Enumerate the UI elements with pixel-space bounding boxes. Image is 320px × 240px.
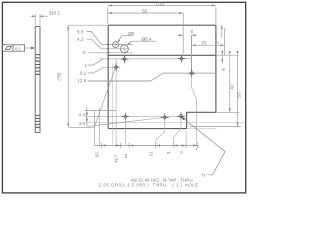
- bottom ordinate dimension line: [94, 111, 198, 148]
- note leader to H6: [87, 118, 164, 127]
- dim 6 vertical (right): [221, 55, 223, 63]
- svg-text:(76): (76): [57, 72, 62, 81]
- top dim (76): [108, 6, 216, 25]
- leader end dots: [107, 44, 109, 60]
- svg-text:0: 0: [179, 151, 184, 154]
- top hole row centerline: [100, 58, 192, 60]
- tap hole H5: [121, 113, 129, 121]
- side view lower tapped-hole tick band: [36, 115, 40, 127]
- left ordinate leaders: [87, 32, 151, 81]
- svg-text:6.5: 6.5: [77, 29, 84, 34]
- bottom dim arrows: [102, 144, 198, 146]
- svg-text:0: 0: [83, 50, 86, 55]
- svg-text:12.6: 12.6: [77, 78, 86, 83]
- circle Ø6.4: [120, 45, 128, 53]
- hole2 vertical extension to bottom dims: [115, 59, 117, 146]
- dims 4.4 / 4.6 (lower left): [85, 108, 116, 127]
- top dim 55: [108, 13, 183, 54]
- tap hole H6: [161, 113, 169, 121]
- svg-text:3: 3: [166, 151, 171, 154]
- svg-text:2: 2: [215, 41, 220, 44]
- side view upper tapped-hole tick band: [36, 55, 40, 75]
- bottom hole row centerline: [85, 116, 183, 118]
- light line y122.6: [85, 122, 245, 124]
- svg-text:9.1: 9.1: [80, 71, 87, 76]
- svg-text:6: 6: [221, 68, 226, 71]
- tiny mark under right tick: [196, 148, 198, 151]
- tap hole H4: [188, 69, 196, 77]
- svg-text:1: 1: [85, 63, 88, 68]
- svg-text:2.05 DRILL ( 2.050 ) THRU -(: 2.05 DRILL ( 2.050 ) THRU -( 1 ) HOLE: [99, 182, 199, 187]
- svg-text:49.7: 49.7: [114, 154, 119, 163]
- svg-text:3±0.1: 3±0.1: [49, 11, 61, 16]
- border frame: [2, 2, 245, 193]
- dimension 3±0.1: [30, 14, 48, 25]
- svg-text:55: 55: [142, 9, 148, 14]
- svg-text:50: 50: [95, 152, 100, 157]
- 7x leader from H7: [182, 117, 225, 175]
- leader Ø6.4: [128, 41, 156, 45]
- tap hole H1: [121, 55, 129, 63]
- circle Ø5: [113, 42, 119, 48]
- svg-text:0.1: 0.1: [15, 46, 21, 51]
- internal stepped feature line (12.6 level): [88, 73, 216, 81]
- dim 53 (right): [190, 55, 241, 126]
- side view plate outline: [35, 27, 40, 133]
- fcf leader to side view: [25, 47, 34, 49]
- tap hole H7: [177, 112, 185, 120]
- bottom extension drops: [125, 117, 186, 145]
- svg-text:7x: 7x: [201, 173, 207, 178]
- svg-text:6: 6: [191, 29, 194, 34]
- tap hole H2: [112, 63, 120, 71]
- flatness feature control frame: [2, 45, 24, 51]
- svg-text:Ø6.4: Ø6.4: [142, 37, 152, 42]
- svg-text:4.4: 4.4: [79, 112, 86, 117]
- svg-text:25: 25: [202, 40, 208, 45]
- leader Ø5: [118, 36, 133, 43]
- dim 41 (right): [216, 55, 239, 112]
- internal full-width step edge: [108, 54, 216, 56]
- svg-text:53: 53: [236, 92, 241, 98]
- svg-text:44: 44: [124, 153, 129, 158]
- note leader to H2: [95, 69, 116, 146]
- right hole vertical centerline: [192, 35, 197, 145]
- svg-text:4.2: 4.2: [77, 37, 84, 42]
- vertical overall dim (76) baseline: [68, 25, 108, 127]
- dim 6 horizontal (top right): [178, 35, 197, 72]
- tap hole H3: [178, 55, 186, 63]
- svg-text:10: 10: [149, 151, 154, 156]
- light vertical extension x112.6: [112, 63, 114, 146]
- svg-text:4.6: 4.6: [79, 121, 86, 126]
- dim 25 (top right): [191, 28, 225, 55]
- main view outline: [108, 25, 216, 128]
- bottom edge light extension to right: [187, 128, 217, 130]
- svg-text:41: 41: [230, 84, 235, 90]
- svg-text:(76): (76): [156, 1, 165, 6]
- svg-text:Ø5: Ø5: [128, 31, 135, 36]
- dim 2 (right, small): [216, 25, 239, 56]
